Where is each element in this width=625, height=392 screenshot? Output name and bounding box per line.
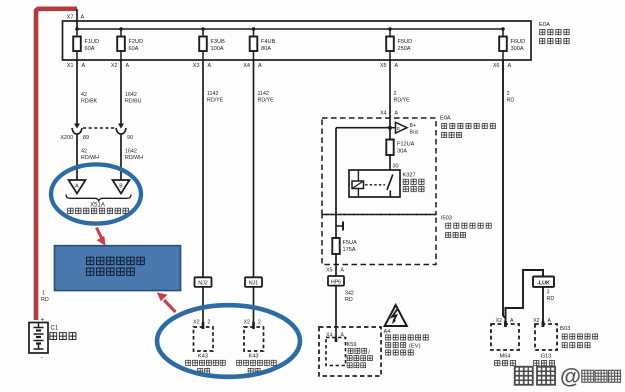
svg-text:HP6: HP6 [331, 279, 341, 285]
annotation arrow from ellipse to note box [97, 228, 106, 246]
pin 30 of relay [393, 164, 399, 170]
svg-text:A: A [82, 63, 86, 69]
watermark toutiao@qixiujun [515, 365, 621, 389]
connector HP6 [328, 276, 344, 286]
bus bar inside fuse box [77, 28, 503, 30]
wire: X7 A feed into battery fuse box [67, 9, 85, 29]
wire NJ1 to K43 [244, 287, 261, 329]
svg-text:1142: 1142 [207, 91, 218, 97]
svg-text:X2: X2 [496, 318, 502, 324]
svg-text:X2: X2 [111, 63, 118, 69]
svg-text:RD/YE: RD/YE [207, 98, 224, 104]
svg-text:A: A [510, 318, 514, 324]
wire 1642 RD/WH [121, 134, 143, 180]
label A4 hybrid/EV battery pack [384, 329, 429, 355]
module K59 starter/generator control (dashed) [319, 327, 381, 376]
svg-text:A: A [395, 111, 399, 117]
fuse F6UD [499, 27, 525, 60]
fuse F3UB [199, 27, 225, 60]
svg-text:F4UB: F4UB [261, 39, 276, 45]
svg-text:X5: X5 [380, 63, 387, 69]
svg-text:B: B [119, 184, 123, 190]
svg-text:A: A [126, 63, 130, 69]
svg-text:89: 89 [83, 135, 89, 141]
svg-text:1642: 1642 [125, 92, 137, 98]
wire 2 RD/YE from X5 [390, 60, 410, 170]
svg-text:1142: 1142 [258, 91, 269, 97]
fuse box E0A under hood (dashed outline) [322, 118, 436, 215]
svg-text:2: 2 [507, 91, 510, 97]
wire 1642 RD/BU from X2 [121, 60, 142, 124]
svg-text:A: A [208, 63, 212, 69]
svg-text:-: - [41, 355, 43, 362]
svg-text:RD: RD [345, 297, 353, 303]
pin X1 A of fuse box [67, 63, 86, 69]
pin X4 A of fuse box [243, 63, 262, 69]
svg-text:(EV): (EV) [409, 343, 421, 349]
svg-text:F5UD: F5UD [398, 39, 413, 45]
pin X2 A of fuse box [111, 63, 130, 69]
svg-text:F12UA: F12UA [397, 142, 415, 148]
svg-text:42: 42 [81, 92, 87, 98]
svg-text:K43: K43 [249, 354, 259, 360]
svg-text:F2UD: F2UD [129, 39, 144, 45]
svg-text:F1UD: F1UD [85, 39, 100, 45]
svg-text:2: 2 [258, 320, 261, 326]
label: E0A fuse box - battery (right of box) [539, 22, 569, 44]
harness dashed link at X200 [83, 127, 115, 129]
svg-text:RD/BU: RD/BU [125, 99, 142, 105]
svg-text:X3: X3 [193, 63, 200, 69]
svg-text:B+: B+ [410, 123, 417, 129]
connector X51A terminal A (triangle) [69, 180, 86, 194]
svg-text:60A: 60A [85, 46, 95, 52]
svg-text:/: / [368, 349, 370, 356]
wire: generator cable branch [506, 270, 544, 319]
svg-text:X6: X6 [493, 63, 500, 69]
svg-text:RD: RD [41, 297, 49, 303]
svg-text:RD: RD [547, 296, 555, 302]
wire from F5UA to HP6 [326, 254, 344, 276]
fuse F4UB [250, 27, 276, 60]
svg-text:90: 90 [127, 135, 133, 141]
svg-text:RD/BK: RD/BK [81, 99, 98, 105]
pin X5 A of fuse box [380, 63, 399, 69]
svg-text:1: 1 [42, 291, 45, 297]
svg-text:A4: A4 [384, 329, 391, 335]
label X51A fuse block - instrument panel [68, 203, 129, 214]
svg-text:X4: X4 [243, 63, 250, 69]
svg-text:2: 2 [208, 320, 211, 326]
module K43 power steering control (right) [237, 327, 277, 374]
pin X4 A into under-hood fuse box [380, 111, 398, 117]
svg-text:3: 3 [547, 290, 550, 296]
connector -LUK [533, 277, 554, 287]
warning triangle (high voltage) A4 [385, 305, 407, 326]
fuse F5UD [386, 27, 412, 60]
svg-text:RD/YE: RD/YE [394, 98, 411, 104]
svg-text:E0A: E0A [539, 22, 550, 28]
wire 2 RD from X6 to starter [503, 60, 514, 324]
svg-text:I503: I503 [560, 326, 571, 332]
svg-text:X51A: X51A [90, 203, 105, 209]
svg-text:300A: 300A [511, 46, 524, 52]
connector X200 pin 89 [60, 124, 89, 142]
fuse box I503 under-hood lower compartment (dashed outline) [322, 215, 436, 265]
svg-text:2: 2 [394, 91, 397, 97]
splice NJ2 [195, 277, 212, 287]
svg-text:K327: K327 [403, 173, 416, 179]
svg-text:30A: 30A [397, 149, 407, 155]
wire 42 RD/BK from X1 [77, 60, 98, 124]
svg-text:NJ2: NJ2 [198, 281, 208, 287]
wire 1142 RD/YE from X4 [254, 60, 275, 277]
connector X51A terminal B (triangle) [113, 180, 130, 194]
svg-text:X2: X2 [244, 320, 250, 326]
label: I503 under-hood fuse box [441, 216, 491, 238]
B+ Bus terminal symbol [396, 122, 419, 135]
svg-text:K43: K43 [198, 354, 208, 360]
svg-text:80A: 80A [261, 46, 271, 52]
svg-text:@: @ [560, 365, 581, 389]
svg-text:E: E [397, 126, 400, 131]
label: E0A fuse box - under hood [440, 116, 495, 138]
svg-text:175A: 175A [343, 247, 356, 253]
node: B+ bus junction [388, 126, 396, 130]
battery C1 [29, 317, 76, 362]
svg-text:X7: X7 [67, 15, 74, 21]
wire 342 RD to K59 [336, 286, 354, 340]
svg-text:X200: X200 [60, 135, 73, 141]
connector X200 pin 90 [116, 124, 133, 142]
svg-text:42: 42 [81, 149, 87, 155]
pin X3 A of fuse box [193, 63, 212, 69]
svg-text:A: A [258, 63, 262, 69]
annotation arrow from lower ellipse to note box [157, 292, 176, 312]
wire 1142 RD/YE from X3 [203, 60, 224, 277]
fuse box E0A (battery fuse box) outline [63, 21, 532, 60]
wire: branch from B+ bus to F5UA [336, 128, 390, 238]
terminal stud symbol on branch [336, 222, 343, 231]
svg-text:A: A [81, 15, 85, 21]
splice NJ1 [245, 277, 262, 287]
svg-text:F3UB: F3UB [211, 39, 226, 45]
svg-text:342: 342 [345, 291, 354, 297]
svg-text:250A: 250A [398, 46, 411, 52]
fuse F1UD [73, 27, 99, 60]
fuse F5UA 175A [332, 238, 357, 254]
svg-text:K59: K59 [347, 342, 357, 348]
svg-text:G13: G13 [541, 354, 552, 360]
svg-text:RD: RD [507, 98, 515, 104]
svg-text:A: A [548, 318, 552, 324]
svg-text:60A: 60A [129, 46, 139, 52]
label I503 under-hood fuse box (right) [560, 326, 598, 348]
wire: red battery positive cable from top to battery C1 [36, 9, 77, 320]
module K43 power steering control (left) [186, 327, 226, 374]
svg-text:F6UD: F6UD [511, 39, 526, 45]
svg-text:RD/WH: RD/WH [125, 155, 143, 161]
svg-text:-LUK: -LUK [537, 281, 550, 287]
relay K327 starter relay [349, 170, 424, 197]
annotation ellipse around X51A [51, 164, 141, 223]
pin X6 A of fuse box [493, 63, 512, 69]
note box: instrument lights flicker / turn signals dead [55, 246, 181, 291]
motor M64 starter (dashed) [491, 318, 519, 366]
svg-text:C1: C1 [51, 326, 59, 332]
svg-text:A: A [508, 63, 512, 69]
svg-text:X5: X5 [326, 268, 332, 274]
svg-text:E0A: E0A [440, 116, 451, 122]
svg-text:X2: X2 [533, 318, 539, 324]
brace under X51A [66, 195, 131, 201]
svg-text:X1: X1 [67, 63, 74, 69]
wire NJ2 to K43 [193, 287, 210, 329]
svg-text:A: A [75, 184, 79, 190]
svg-text:Bus: Bus [410, 129, 419, 135]
svg-text:M64: M64 [500, 354, 511, 360]
svg-text:X4: X4 [380, 111, 386, 117]
annotation ellipse around K43 modules [157, 305, 300, 377]
svg-text:100A: 100A [211, 46, 224, 52]
fuse F12UA 30A [386, 140, 414, 156]
label 1 RD on battery cable [41, 291, 49, 304]
svg-text:RD/YE: RD/YE [258, 98, 275, 104]
generator G13 (dashed) [533, 318, 557, 366]
svg-text:X2: X2 [193, 320, 199, 326]
svg-text:RD/WH: RD/WH [81, 155, 99, 161]
svg-text:A: A [341, 268, 345, 274]
svg-text:1642: 1642 [125, 149, 137, 155]
wire 42 RD/WH [77, 134, 99, 180]
svg-text:I503: I503 [441, 216, 452, 222]
fuse F2UD [117, 27, 143, 60]
wire 3 RD to generator [543, 287, 554, 326]
svg-text:30: 30 [393, 164, 399, 170]
svg-text:NJ1: NJ1 [249, 281, 259, 287]
svg-text:F5UA: F5UA [343, 240, 358, 246]
svg-text:A: A [395, 63, 399, 69]
